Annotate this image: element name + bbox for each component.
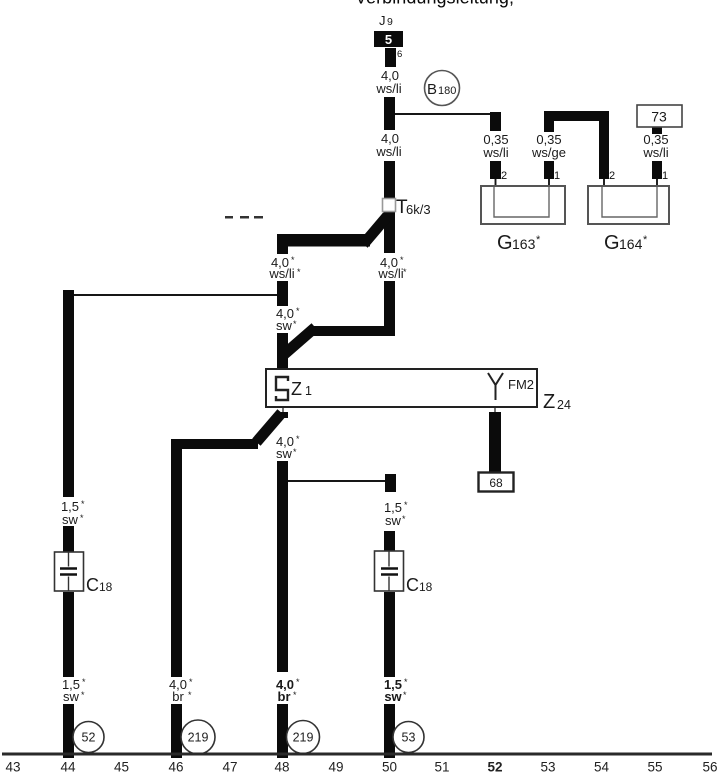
svg-text:164: 164 (619, 236, 643, 252)
svg-text:52: 52 (82, 731, 96, 745)
svg-text:6k/3: 6k/3 (406, 202, 431, 217)
svg-text:24: 24 (557, 398, 571, 412)
svg-text:51: 51 (434, 760, 449, 775)
svg-text:68: 68 (489, 476, 503, 490)
svg-text:6: 6 (397, 49, 402, 60)
svg-text:2: 2 (501, 170, 507, 182)
svg-text:219: 219 (188, 731, 209, 745)
svg-text:*: * (404, 677, 408, 687)
svg-text:44: 44 (60, 760, 76, 775)
svg-text:*: * (402, 514, 406, 524)
svg-text:5: 5 (385, 32, 392, 47)
svg-text:*: * (188, 690, 192, 700)
svg-text:48: 48 (274, 760, 289, 775)
svg-text:1: 1 (662, 170, 668, 182)
svg-text:J: J (379, 13, 386, 28)
svg-text:*: * (293, 447, 297, 457)
svg-text:55: 55 (647, 760, 662, 775)
svg-text:2: 2 (609, 170, 615, 182)
svg-text:45: 45 (114, 760, 129, 775)
svg-text:sw: sw (63, 689, 80, 704)
svg-text:53: 53 (540, 760, 555, 775)
svg-text:*: * (293, 319, 297, 329)
svg-text:73: 73 (651, 109, 667, 125)
svg-text:ws/li: ws/li (377, 266, 403, 281)
svg-text:219: 219 (293, 731, 314, 745)
svg-text:163: 163 (512, 236, 536, 252)
svg-text:*: * (643, 234, 648, 246)
svg-text:1: 1 (554, 170, 560, 182)
svg-text:52: 52 (487, 760, 502, 775)
svg-text:*: * (293, 690, 297, 700)
svg-text:*: * (80, 513, 84, 523)
svg-text:C: C (86, 575, 99, 595)
svg-text:br: br (278, 689, 291, 704)
svg-text:sw: sw (385, 513, 402, 528)
svg-text:49: 49 (328, 760, 343, 775)
svg-text:*: * (296, 677, 300, 687)
svg-text:ws/li: ws/li (642, 145, 668, 160)
svg-text:50: 50 (382, 760, 397, 775)
svg-text:*: * (403, 690, 407, 700)
svg-text:*: * (297, 267, 301, 277)
svg-text:ws/li: ws/li (482, 145, 508, 160)
svg-text:Z: Z (543, 391, 555, 413)
svg-text:180: 180 (438, 85, 456, 97)
svg-text:*: * (404, 500, 408, 510)
svg-text:sw: sw (276, 318, 293, 333)
svg-text:G: G (604, 232, 620, 254)
svg-text:*: * (403, 267, 407, 277)
svg-text:*: * (189, 677, 193, 687)
svg-text:9: 9 (387, 16, 393, 28)
svg-text:ws/li: ws/li (375, 81, 401, 96)
svg-text:ws/ge: ws/ge (531, 145, 566, 160)
svg-text:G: G (497, 232, 513, 254)
svg-text:C: C (406, 575, 419, 595)
svg-text:B: B (427, 81, 437, 98)
svg-text:*: * (81, 690, 85, 700)
svg-text:1: 1 (305, 384, 312, 398)
svg-text:18: 18 (419, 580, 433, 594)
svg-text:56: 56 (702, 760, 717, 775)
svg-text:46: 46 (168, 760, 183, 775)
svg-text:sw: sw (276, 446, 293, 461)
svg-text:*: * (296, 306, 300, 316)
svg-text:FM2: FM2 (508, 377, 534, 392)
svg-text:ws/li: ws/li (375, 144, 401, 159)
svg-text:47: 47 (222, 760, 237, 775)
svg-text:Z: Z (291, 379, 302, 399)
svg-text:sw: sw (384, 689, 402, 704)
svg-text:*: * (296, 434, 300, 444)
svg-text:sw: sw (62, 512, 79, 527)
svg-text:*: * (81, 499, 85, 509)
svg-text:18: 18 (99, 580, 113, 594)
svg-text:43: 43 (5, 760, 20, 775)
svg-text:54: 54 (594, 760, 610, 775)
svg-text:*: * (400, 255, 404, 265)
svg-text:br: br (172, 689, 184, 704)
svg-text:*: * (82, 677, 86, 687)
svg-text:53: 53 (402, 731, 416, 745)
svg-text:ws/li: ws/li (268, 266, 294, 281)
svg-text:*: * (291, 255, 295, 265)
svg-text:Verbindungsleitung,: Verbindungsleitung, (355, 0, 515, 8)
svg-text:*: * (536, 234, 541, 246)
